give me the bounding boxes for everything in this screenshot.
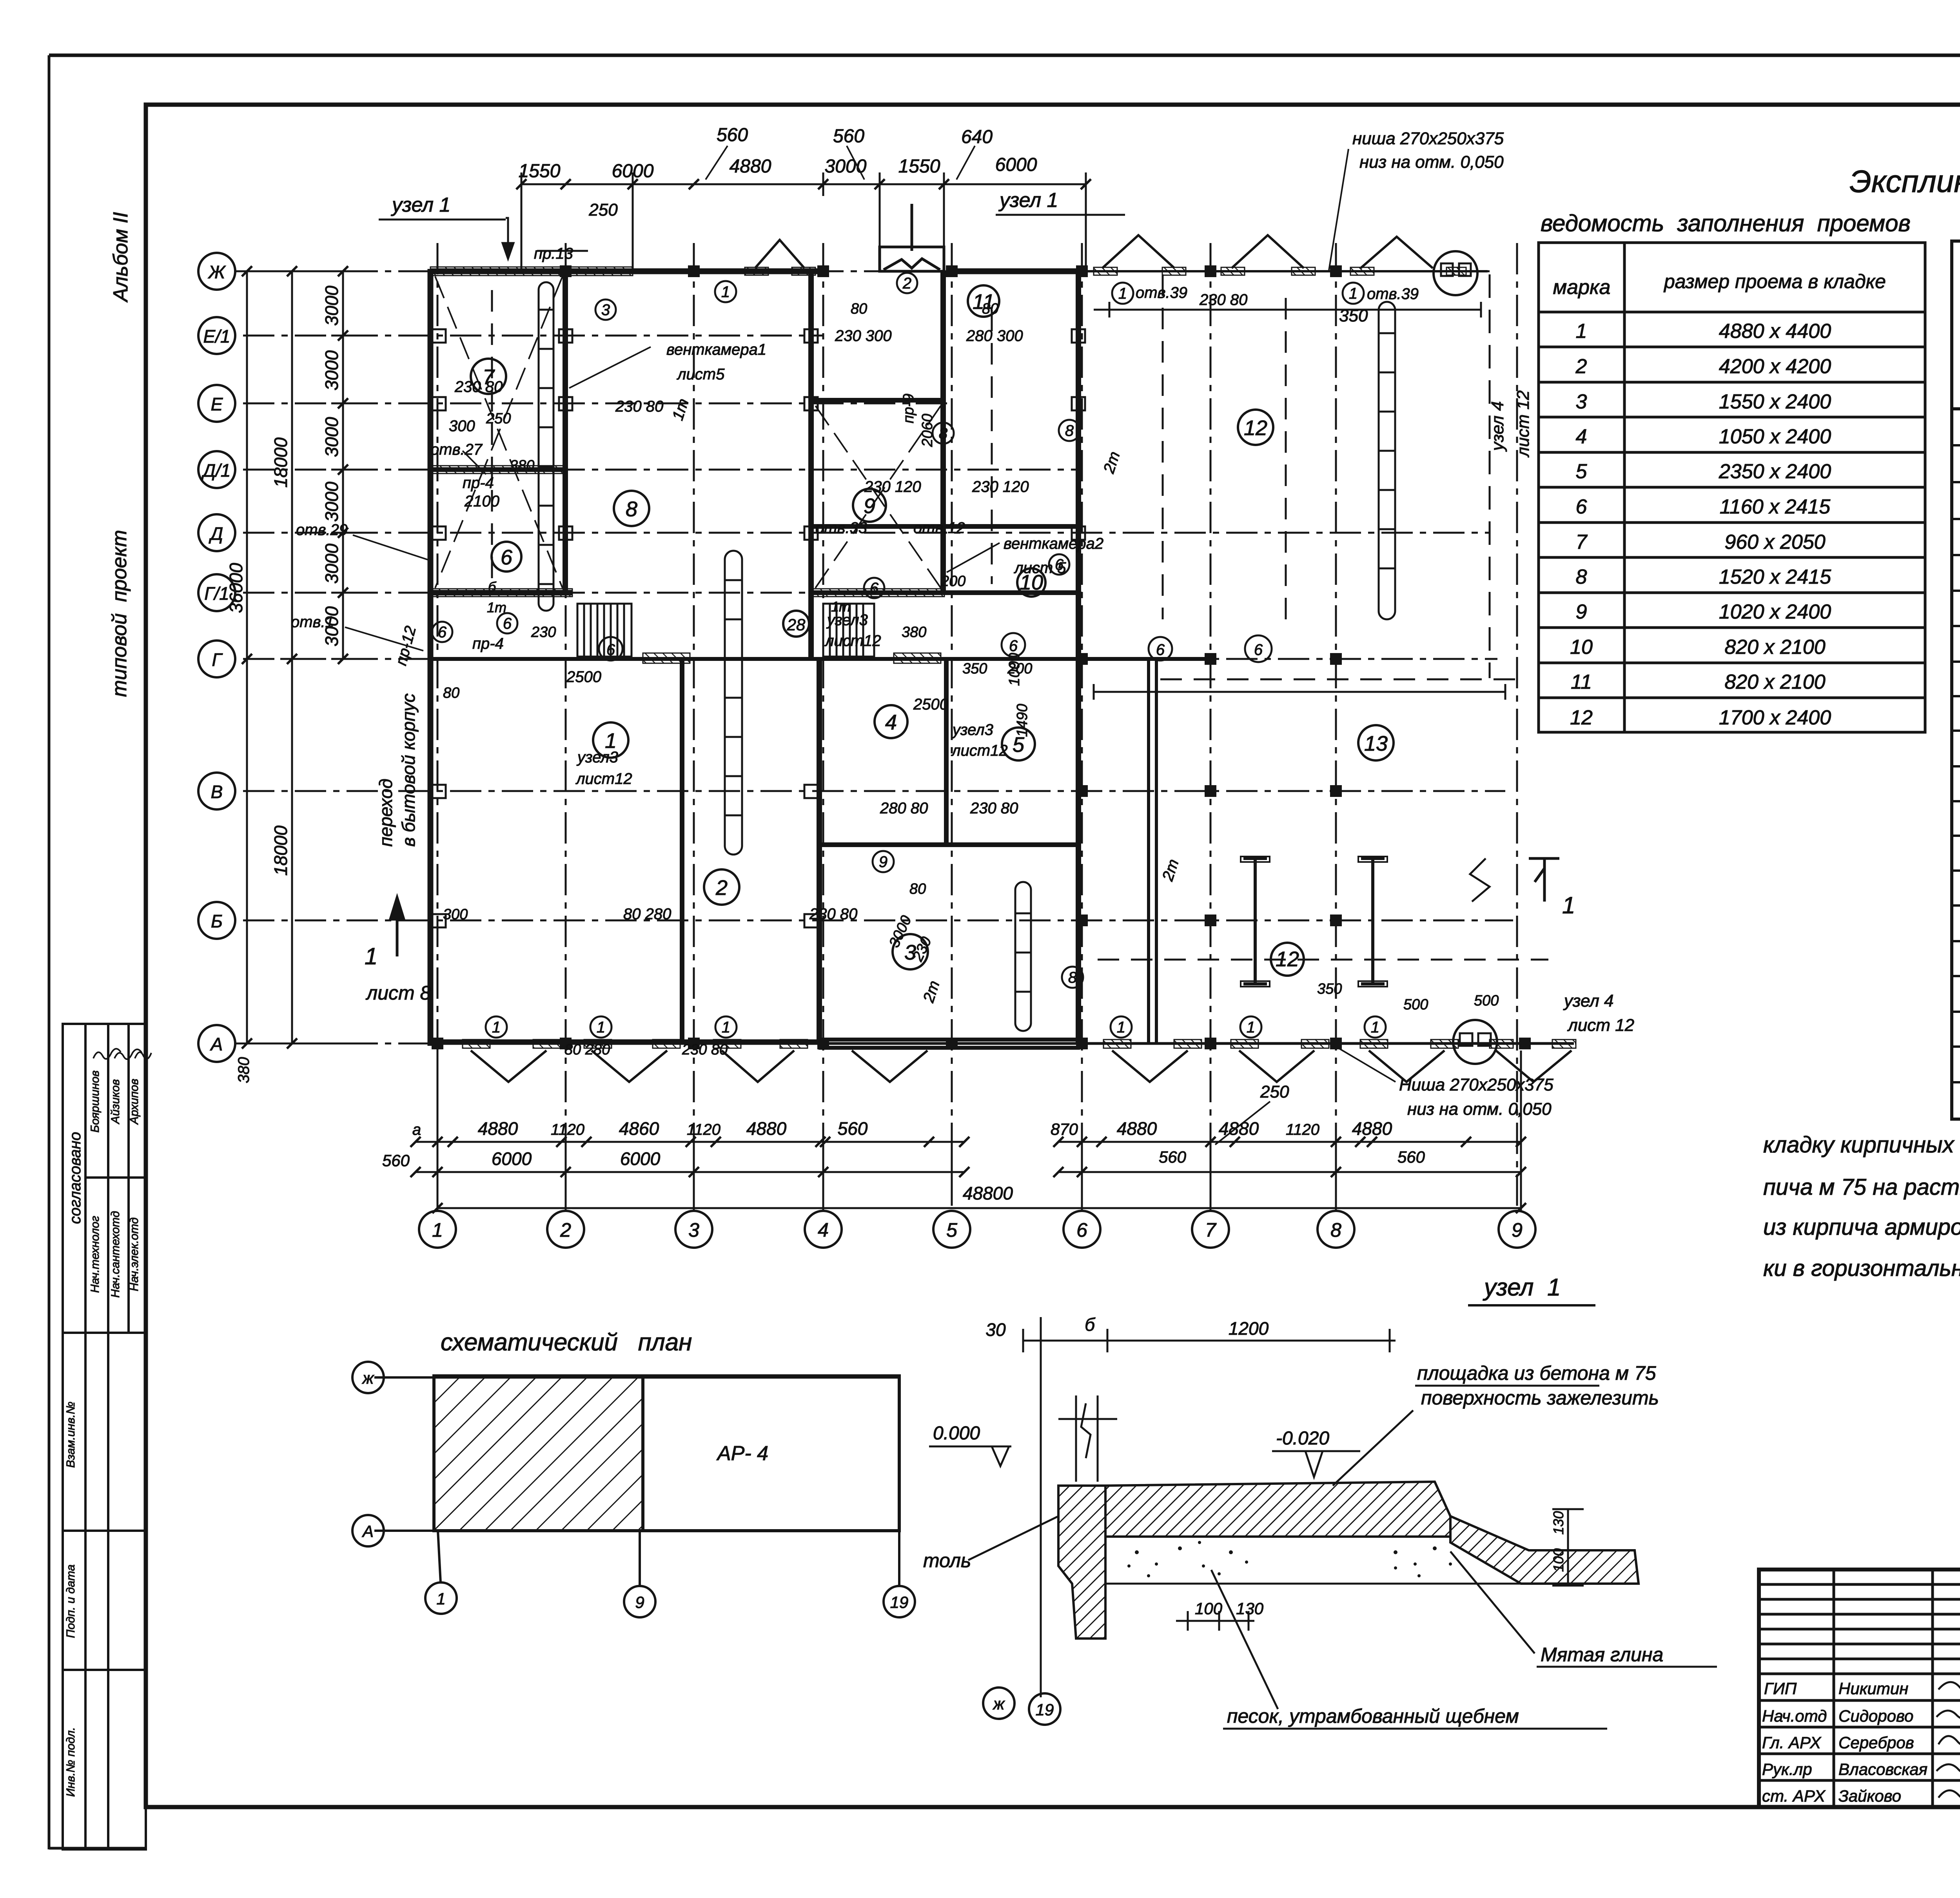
svg-text:3: 3 xyxy=(601,301,610,319)
svg-text:6: 6 xyxy=(1254,641,1263,659)
svg-text:13: 13 xyxy=(1364,732,1388,755)
svg-text:Экспликация помещений (н: Экспликация помещений (начало) xyxy=(1849,164,1960,199)
svg-text:6: 6 xyxy=(501,546,513,569)
svg-text:12: 12 xyxy=(1244,416,1267,440)
svg-text:2: 2 xyxy=(902,275,911,292)
svg-text:4200 х 4200: 4200 х 4200 xyxy=(1719,355,1831,378)
svg-text:2060: 2060 xyxy=(919,414,936,447)
svg-text:схематический план: схематический план xyxy=(441,1329,692,1356)
svg-text:19: 19 xyxy=(1036,1700,1054,1719)
svg-text:Нач.технолог: Нач.технолог xyxy=(89,1216,102,1293)
svg-text:230 80: 230 80 xyxy=(682,1042,728,1058)
svg-text:пр-4: пр-4 xyxy=(472,635,504,652)
svg-text:Альбом II: Альбом II xyxy=(109,212,132,303)
svg-text:1120: 1120 xyxy=(1286,1121,1319,1138)
svg-text:Нач.элек.отд: Нач.элек.отд xyxy=(128,1218,141,1291)
svg-text:в бытовой корпус: в бытовой корпус xyxy=(398,693,419,847)
svg-text:ж: ж xyxy=(993,1695,1005,1713)
svg-text:Г: Г xyxy=(212,650,223,670)
svg-text:лист12: лист12 xyxy=(575,770,632,788)
svg-text:250: 250 xyxy=(588,200,618,220)
svg-text:230 120: 230 120 xyxy=(972,478,1029,495)
svg-text:1: 1 xyxy=(365,943,377,969)
svg-text:размер проема в кладке: размер проема в кладке xyxy=(1663,270,1886,292)
svg-text:из кирпича армировать 2 Ф6 А: из кирпича армировать 2 Ф6 А-I через 6 р… xyxy=(1763,1214,1960,1240)
svg-text:7: 7 xyxy=(1576,531,1588,553)
svg-text:80: 80 xyxy=(851,301,867,317)
svg-text:4880: 4880 xyxy=(1352,1118,1392,1139)
svg-text:Б: Б xyxy=(211,911,223,931)
svg-text:36000: 36000 xyxy=(226,563,246,613)
svg-text:А: А xyxy=(361,1522,374,1541)
svg-text:Нач.сантехотд: Нач.сантехотд xyxy=(109,1211,122,1297)
svg-text:230 300: 230 300 xyxy=(835,327,892,345)
svg-text:1: 1 xyxy=(721,283,730,301)
svg-text:2: 2 xyxy=(715,876,728,900)
svg-text:б: б xyxy=(488,579,497,595)
svg-text:1550: 1550 xyxy=(519,161,561,181)
svg-text:лист 5: лист 5 xyxy=(1014,559,1066,577)
svg-text:4: 4 xyxy=(1576,425,1587,448)
svg-text:венткамера1: венткамера1 xyxy=(666,341,766,358)
svg-text:4860: 4860 xyxy=(619,1118,659,1139)
svg-text:6: 6 xyxy=(1076,1219,1087,1241)
svg-text:переход: переход xyxy=(376,778,396,847)
svg-text:500: 500 xyxy=(1474,993,1499,1009)
svg-text:3000: 3000 xyxy=(321,543,342,584)
svg-text:9: 9 xyxy=(635,1593,644,1611)
svg-text:640: 640 xyxy=(961,127,993,147)
svg-text:3: 3 xyxy=(1576,390,1587,413)
svg-text:Ж: Ж xyxy=(208,262,226,282)
svg-text:8: 8 xyxy=(1330,1219,1341,1241)
svg-text:500: 500 xyxy=(1403,996,1428,1013)
svg-text:1: 1 xyxy=(492,1019,501,1036)
svg-text:1: 1 xyxy=(722,1019,730,1036)
svg-text:8: 8 xyxy=(626,497,637,521)
svg-text:узел3: узел3 xyxy=(951,721,993,739)
svg-text:1050 х 2400: 1050 х 2400 xyxy=(1719,425,1831,448)
svg-text:б: б xyxy=(1085,1314,1096,1335)
svg-text:6: 6 xyxy=(1576,495,1587,518)
svg-text:песок, утрамбованный щебнем: песок, утрамбованный щебнем xyxy=(1227,1705,1519,1727)
svg-text:отв.39: отв.39 xyxy=(1136,284,1187,301)
svg-text:Никитин: Никитин xyxy=(1838,1679,1908,1698)
svg-text:Д: Д xyxy=(209,523,223,544)
svg-text:лист 12: лист 12 xyxy=(1567,1016,1634,1035)
svg-text:8: 8 xyxy=(939,425,948,442)
svg-text:200: 200 xyxy=(940,573,965,590)
svg-text:6: 6 xyxy=(1009,637,1018,655)
svg-text:230 120: 230 120 xyxy=(864,478,921,495)
svg-text:560: 560 xyxy=(717,125,748,145)
svg-text:Бояршинов: Бояршинов xyxy=(89,1071,102,1133)
svg-text:Е/1: Е/1 xyxy=(203,326,230,347)
svg-text:11: 11 xyxy=(1571,671,1592,693)
svg-text:6000: 6000 xyxy=(620,1149,661,1169)
svg-text:560: 560 xyxy=(838,1118,868,1139)
svg-text:лист 8: лист 8 xyxy=(365,982,431,1004)
svg-text:230 80: 230 80 xyxy=(454,378,503,396)
svg-text:28: 28 xyxy=(787,615,806,634)
svg-text:отв.33: отв.33 xyxy=(815,519,867,537)
svg-text:Е: Е xyxy=(211,394,223,414)
svg-text:2500: 2500 xyxy=(913,696,948,713)
svg-text:12: 12 xyxy=(1276,947,1299,971)
svg-text:230 80: 230 80 xyxy=(809,905,857,923)
svg-text:230 80: 230 80 xyxy=(615,398,663,415)
svg-text:3000: 3000 xyxy=(321,417,342,457)
svg-text:лист12: лист12 xyxy=(951,742,1008,759)
svg-text:6000: 6000 xyxy=(612,161,654,181)
svg-text:6: 6 xyxy=(438,624,447,641)
svg-text:560: 560 xyxy=(833,126,864,147)
svg-text:6: 6 xyxy=(1156,641,1165,659)
svg-text:4: 4 xyxy=(818,1219,829,1241)
svg-text:1550 х 2400: 1550 х 2400 xyxy=(1719,390,1831,413)
svg-text:1т: 1т xyxy=(487,599,506,615)
svg-text:отв.29: отв.29 xyxy=(296,521,348,539)
svg-text:9: 9 xyxy=(879,853,887,871)
svg-text:4880: 4880 xyxy=(746,1118,787,1139)
svg-text:230 80: 230 80 xyxy=(970,800,1018,817)
svg-text:Д/1: Д/1 xyxy=(201,460,231,481)
svg-text:350: 350 xyxy=(1317,981,1342,997)
svg-text:280 80: 280 80 xyxy=(880,800,928,817)
svg-text:кладку кирпичных стен и п: кладку кирпичных стен и перегородок вест… xyxy=(1763,1132,1960,1158)
svg-text:венткамера2: венткамера2 xyxy=(1004,535,1103,552)
svg-text:отв.12: отв.12 xyxy=(913,519,965,537)
svg-text:560: 560 xyxy=(1397,1148,1425,1166)
svg-text:1160 х 2415: 1160 х 2415 xyxy=(1720,495,1831,518)
svg-text:Взам.инв.№: Взам.инв.№ xyxy=(64,1402,77,1468)
svg-text:8: 8 xyxy=(1576,566,1587,588)
svg-text:площадка из бетона м 75: площадка из бетона м 75 xyxy=(1417,1362,1656,1384)
svg-text:4: 4 xyxy=(885,711,897,734)
svg-text:100: 100 xyxy=(1550,1548,1566,1572)
svg-text:отв.27: отв.27 xyxy=(430,441,483,458)
svg-text:узел3: узел3 xyxy=(576,749,618,766)
svg-text:1550: 1550 xyxy=(898,156,940,177)
svg-text:130: 130 xyxy=(1550,1511,1566,1535)
svg-text:9: 9 xyxy=(1576,601,1587,623)
svg-text:типовой проект: типовой проект xyxy=(108,530,131,697)
svg-text:6000: 6000 xyxy=(492,1149,532,1169)
svg-text:1т: 1т xyxy=(669,396,692,422)
svg-text:2: 2 xyxy=(560,1219,571,1241)
svg-text:Гл. АРХ: Гл. АРХ xyxy=(1762,1733,1822,1752)
svg-text:5: 5 xyxy=(1576,460,1588,483)
svg-text:пр.13: пр.13 xyxy=(534,245,573,262)
svg-text:ки в горизонтальном направ: ки в горизонтальном направлении. xyxy=(1763,1256,1960,1281)
svg-text:ведомость заполнения проемов: ведомость заполнения проемов xyxy=(1541,210,1911,236)
svg-text:7: 7 xyxy=(1205,1219,1217,1241)
svg-text:2т: 2т xyxy=(920,978,943,1005)
svg-text:пича м 75 на растворе М 50: пича м 75 на растворе М 50 . стены и пер… xyxy=(1763,1174,1960,1200)
svg-text:230: 230 xyxy=(531,624,556,641)
svg-text:870: 870 xyxy=(1051,1120,1078,1138)
svg-text:узел 4: узел 4 xyxy=(1563,991,1613,1011)
svg-text:4880: 4880 xyxy=(730,156,771,177)
svg-text:пр-9: пр-9 xyxy=(900,394,917,423)
svg-text:узел 4: узел 4 xyxy=(1488,401,1507,452)
svg-text:4880: 4880 xyxy=(1117,1118,1157,1139)
svg-text:А: А xyxy=(210,1034,223,1054)
svg-text:380: 380 xyxy=(235,1057,252,1083)
svg-text:820 х 2100: 820 х 2100 xyxy=(1724,671,1825,693)
svg-text:Подп. и дата: Подп. и дата xyxy=(64,1564,77,1638)
svg-text:отв.39: отв.39 xyxy=(1367,285,1419,303)
svg-text:250: 250 xyxy=(486,410,511,427)
svg-text:4880: 4880 xyxy=(1219,1118,1259,1139)
svg-text:1520 х 2415: 1520 х 2415 xyxy=(1719,566,1831,588)
svg-text:лист 12: лист 12 xyxy=(1514,390,1533,458)
svg-text:узел 1: узел 1 xyxy=(998,189,1058,212)
svg-text:В: В xyxy=(211,782,223,802)
svg-text:280 300: 280 300 xyxy=(966,327,1023,345)
svg-text:-0.020: -0.020 xyxy=(1276,1428,1329,1449)
svg-text:1: 1 xyxy=(1247,1019,1255,1036)
svg-text:230 80: 230 80 xyxy=(1199,291,1247,308)
svg-text:1: 1 xyxy=(436,1590,445,1608)
svg-text:1200: 1200 xyxy=(1229,1318,1269,1339)
svg-text:1000: 1000 xyxy=(1006,653,1023,686)
svg-text:а: а xyxy=(412,1121,421,1138)
svg-text:3000: 3000 xyxy=(825,156,867,177)
svg-text:2: 2 xyxy=(1575,355,1587,378)
svg-text:ниша 270х250х375: ниша 270х250х375 xyxy=(1352,129,1504,148)
svg-text:Рук.лр: Рук.лр xyxy=(1762,1760,1812,1778)
svg-text:Ниша 270х250х375: Ниша 270х250х375 xyxy=(1399,1075,1553,1094)
svg-text:80: 80 xyxy=(982,301,998,317)
svg-text:лист12: лист12 xyxy=(824,632,881,650)
svg-text:Архипов: Архипов xyxy=(128,1079,141,1125)
svg-text:АР- 4: АР- 4 xyxy=(716,1442,768,1465)
svg-text:2500: 2500 xyxy=(566,668,601,686)
svg-text:250: 250 xyxy=(1260,1082,1289,1101)
svg-text:2т: 2т xyxy=(1159,857,1182,883)
svg-text:1: 1 xyxy=(1576,320,1587,343)
svg-text:1120: 1120 xyxy=(687,1121,720,1138)
svg-text:80: 80 xyxy=(909,881,926,897)
svg-text:1700 х 2400: 1700 х 2400 xyxy=(1719,706,1831,729)
svg-text:80 280: 80 280 xyxy=(623,905,671,923)
svg-text:560: 560 xyxy=(382,1151,410,1170)
svg-text:низ на отм. 0,050: низ на отм. 0,050 xyxy=(1359,152,1504,172)
svg-text:узел 1: узел 1 xyxy=(391,194,450,216)
svg-text:9: 9 xyxy=(864,494,875,518)
svg-text:толь: толь xyxy=(923,1550,971,1571)
svg-text:6: 6 xyxy=(870,580,879,597)
svg-text:19: 19 xyxy=(890,1593,909,1611)
svg-text:4880: 4880 xyxy=(478,1118,518,1139)
svg-text:Инв.№ подл.: Инв.№ подл. xyxy=(64,1727,77,1797)
svg-text:0.000: 0.000 xyxy=(933,1423,980,1444)
svg-text:6000: 6000 xyxy=(995,154,1037,175)
svg-text:380: 380 xyxy=(510,457,534,474)
svg-text:380: 380 xyxy=(902,624,926,641)
svg-text:1: 1 xyxy=(1349,285,1357,302)
svg-text:Власовская: Власовская xyxy=(1838,1760,1927,1778)
svg-text:1490: 1490 xyxy=(1014,704,1031,737)
svg-text:лист5: лист5 xyxy=(677,366,725,383)
svg-text:6: 6 xyxy=(606,641,615,659)
svg-text:48800: 48800 xyxy=(963,1183,1013,1203)
svg-text:300: 300 xyxy=(449,417,475,435)
svg-text:Мятая глина: Мятая глина xyxy=(1541,1644,1663,1666)
svg-text:Зайково: Зайково xyxy=(1838,1787,1901,1805)
svg-text:12: 12 xyxy=(1570,706,1593,729)
svg-text:узел 1: узел 1 xyxy=(1483,1274,1561,1301)
svg-text:1: 1 xyxy=(432,1219,443,1241)
svg-text:Серебров: Серебров xyxy=(1838,1733,1914,1752)
svg-text:1120: 1120 xyxy=(551,1121,584,1138)
svg-text:согласовано: согласовано xyxy=(67,1132,84,1224)
svg-text:300: 300 xyxy=(443,906,468,923)
svg-text:350: 350 xyxy=(962,660,987,677)
svg-text:1: 1 xyxy=(1118,285,1127,302)
svg-text:3000: 3000 xyxy=(321,350,342,390)
svg-text:350: 350 xyxy=(1339,306,1368,325)
svg-text:2т: 2т xyxy=(1100,449,1123,475)
svg-text:4880 х 4400: 4880 х 4400 xyxy=(1719,320,1831,343)
svg-text:поверхность зажелезить: поверхность зажелезить xyxy=(1421,1387,1659,1409)
svg-text:1: 1 xyxy=(597,1019,605,1036)
svg-text:Айзиков: Айзиков xyxy=(109,1079,122,1125)
svg-text:10: 10 xyxy=(1570,636,1593,659)
svg-text:пр-4: пр-4 xyxy=(463,474,494,492)
svg-text:80: 80 xyxy=(443,685,459,701)
svg-text:80 280: 80 280 xyxy=(564,1042,610,1058)
svg-text:ГИП: ГИП xyxy=(1764,1679,1797,1698)
svg-text:ст. АРХ: ст. АРХ xyxy=(1762,1787,1826,1805)
svg-text:8: 8 xyxy=(1065,422,1074,439)
svg-text:100 130: 100 130 xyxy=(1195,1599,1264,1618)
svg-text:1: 1 xyxy=(1117,1019,1125,1036)
svg-text:Сидорово: Сидорово xyxy=(1838,1707,1913,1725)
svg-text:30: 30 xyxy=(985,1319,1006,1340)
svg-text:8: 8 xyxy=(1068,969,1077,986)
svg-text:низ на отм. 0,050: низ на отм. 0,050 xyxy=(1407,1100,1552,1119)
svg-text:18000: 18000 xyxy=(270,437,291,488)
svg-text:3000: 3000 xyxy=(321,481,342,522)
svg-text:5: 5 xyxy=(946,1219,957,1241)
svg-text:ж: ж xyxy=(362,1369,375,1387)
svg-text:Нач.отд: Нач.отд xyxy=(1762,1707,1827,1725)
svg-text:1: 1 xyxy=(1371,1019,1379,1036)
svg-text:6: 6 xyxy=(503,615,512,632)
svg-text:1: 1 xyxy=(1562,892,1575,918)
svg-text:марка: марка xyxy=(1553,276,1611,299)
svg-text:отв.1: отв.1 xyxy=(291,613,334,631)
svg-text:1т: 1т xyxy=(831,599,851,615)
svg-text:3: 3 xyxy=(688,1219,699,1241)
svg-text:9: 9 xyxy=(1512,1219,1523,1241)
svg-text:18000: 18000 xyxy=(270,826,291,876)
svg-text:1020 х 2400: 1020 х 2400 xyxy=(1719,601,1831,623)
svg-text:3000: 3000 xyxy=(321,285,342,326)
svg-text:820 х 2100: 820 х 2100 xyxy=(1724,636,1825,659)
svg-text:960 х 2050: 960 х 2050 xyxy=(1724,531,1825,553)
svg-text:2350 х 2400: 2350 х 2400 xyxy=(1719,460,1831,483)
svg-text:560: 560 xyxy=(1159,1148,1187,1166)
svg-text:2100: 2100 xyxy=(464,493,499,510)
